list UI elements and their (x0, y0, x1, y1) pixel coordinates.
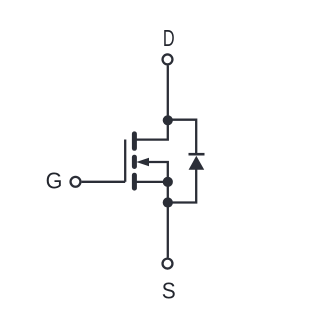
wire: body lead from arrow to source node (147, 162, 167, 182)
svg-text:D: D (163, 27, 175, 52)
transistor Q1 body channel segment (132, 157, 137, 166)
wire: source lead from channel to source node (134, 181, 167, 183)
junction: source node (body tie) (163, 177, 173, 187)
transistor Q1 source channel segment (132, 175, 137, 188)
diode D1 cathode bar (189, 153, 205, 156)
transistor Q1 body arrow (points to channel) (136, 158, 149, 166)
wire: diode anode down and left to source net (168, 169, 196, 203)
diode D1 body (triangle, anode below) (189, 156, 205, 170)
wire: drain lead from channel to drain node (134, 120, 167, 139)
terminal D (open circle) (163, 54, 173, 64)
wire: D terminal to drain node (167, 65, 169, 120)
transistor Q1 gate electrode (vertical bar) (124, 140, 126, 182)
terminal G (open circle) (71, 177, 81, 187)
wire: lower node to S terminal (167, 203, 169, 258)
svg-text:S: S (162, 277, 176, 303)
wire: G terminal to gate electrode (82, 181, 126, 183)
terminal S (open circle) (163, 259, 173, 269)
wire: drain node to diode cathode (right branch) (168, 120, 196, 155)
junction: lower source node (diode return) (163, 197, 173, 207)
junction: drain node (163, 115, 173, 125)
wire: source node to lower node (167, 182, 169, 203)
svg-text:G: G (46, 168, 63, 194)
transistor Q1 drain channel segment (132, 134, 137, 148)
